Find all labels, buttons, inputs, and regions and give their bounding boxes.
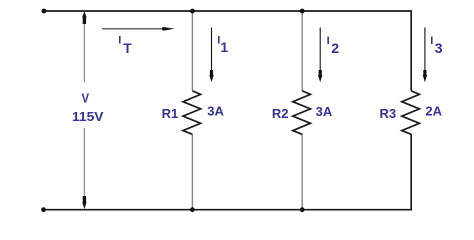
svg-text:3: 3 [435, 40, 443, 56]
svg-text:2A: 2A [425, 104, 442, 119]
svg-text:V: V [82, 90, 90, 105]
svg-text:I: I [430, 35, 433, 47]
svg-text:R1: R1 [162, 106, 179, 121]
svg-text:I: I [327, 35, 330, 47]
svg-text:2: 2 [331, 40, 339, 56]
svg-text:3A: 3A [316, 104, 333, 119]
svg-text:R3: R3 [380, 106, 397, 121]
svg-text:1: 1 [220, 39, 228, 55]
svg-text:3A: 3A [207, 103, 224, 118]
svg-text:I: I [118, 35, 121, 47]
svg-text:R2: R2 [272, 106, 289, 121]
svg-text:115V: 115V [72, 109, 104, 124]
svg-text:T: T [123, 41, 132, 56]
